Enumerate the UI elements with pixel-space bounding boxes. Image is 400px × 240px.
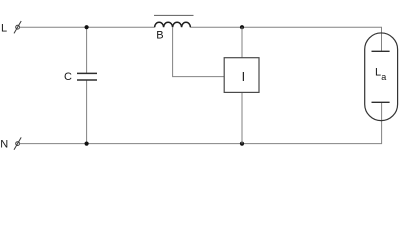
svg-text:I: I — [242, 70, 245, 84]
svg-text:L: L — [375, 66, 381, 78]
svg-text:N: N — [0, 139, 8, 151]
ignitor box — [224, 58, 259, 93]
junction top-right — [240, 25, 244, 29]
svg-text:B: B — [156, 30, 163, 42]
inductor B coil — [155, 22, 191, 27]
terminal L — [14, 21, 21, 33]
wire capacitor branch top — [86, 27, 88, 73]
wire coil to lamp top — [190, 27, 381, 51]
wire coil tap to ignitor — [173, 27, 225, 76]
svg-text:L: L — [1, 22, 7, 34]
capacitor C — [77, 73, 97, 80]
lamp top electrode — [372, 50, 390, 52]
wire capacitor branch bottom — [86, 80, 88, 143]
terminal N — [14, 137, 21, 149]
svg-text:a: a — [381, 72, 386, 82]
wire L to coil — [20, 26, 155, 28]
svg-text:C: C — [64, 71, 72, 83]
lamp La bulb — [365, 33, 398, 121]
wire N rail — [20, 102, 382, 143]
junction bottom-left — [85, 142, 89, 146]
inductor B core line — [154, 14, 194, 16]
junction bottom-right — [240, 142, 244, 146]
wire ignitor bottom lead — [241, 92, 243, 143]
junction top-left — [85, 25, 89, 29]
lamp bottom electrode — [372, 101, 390, 103]
wire ignitor top lead — [241, 27, 243, 58]
